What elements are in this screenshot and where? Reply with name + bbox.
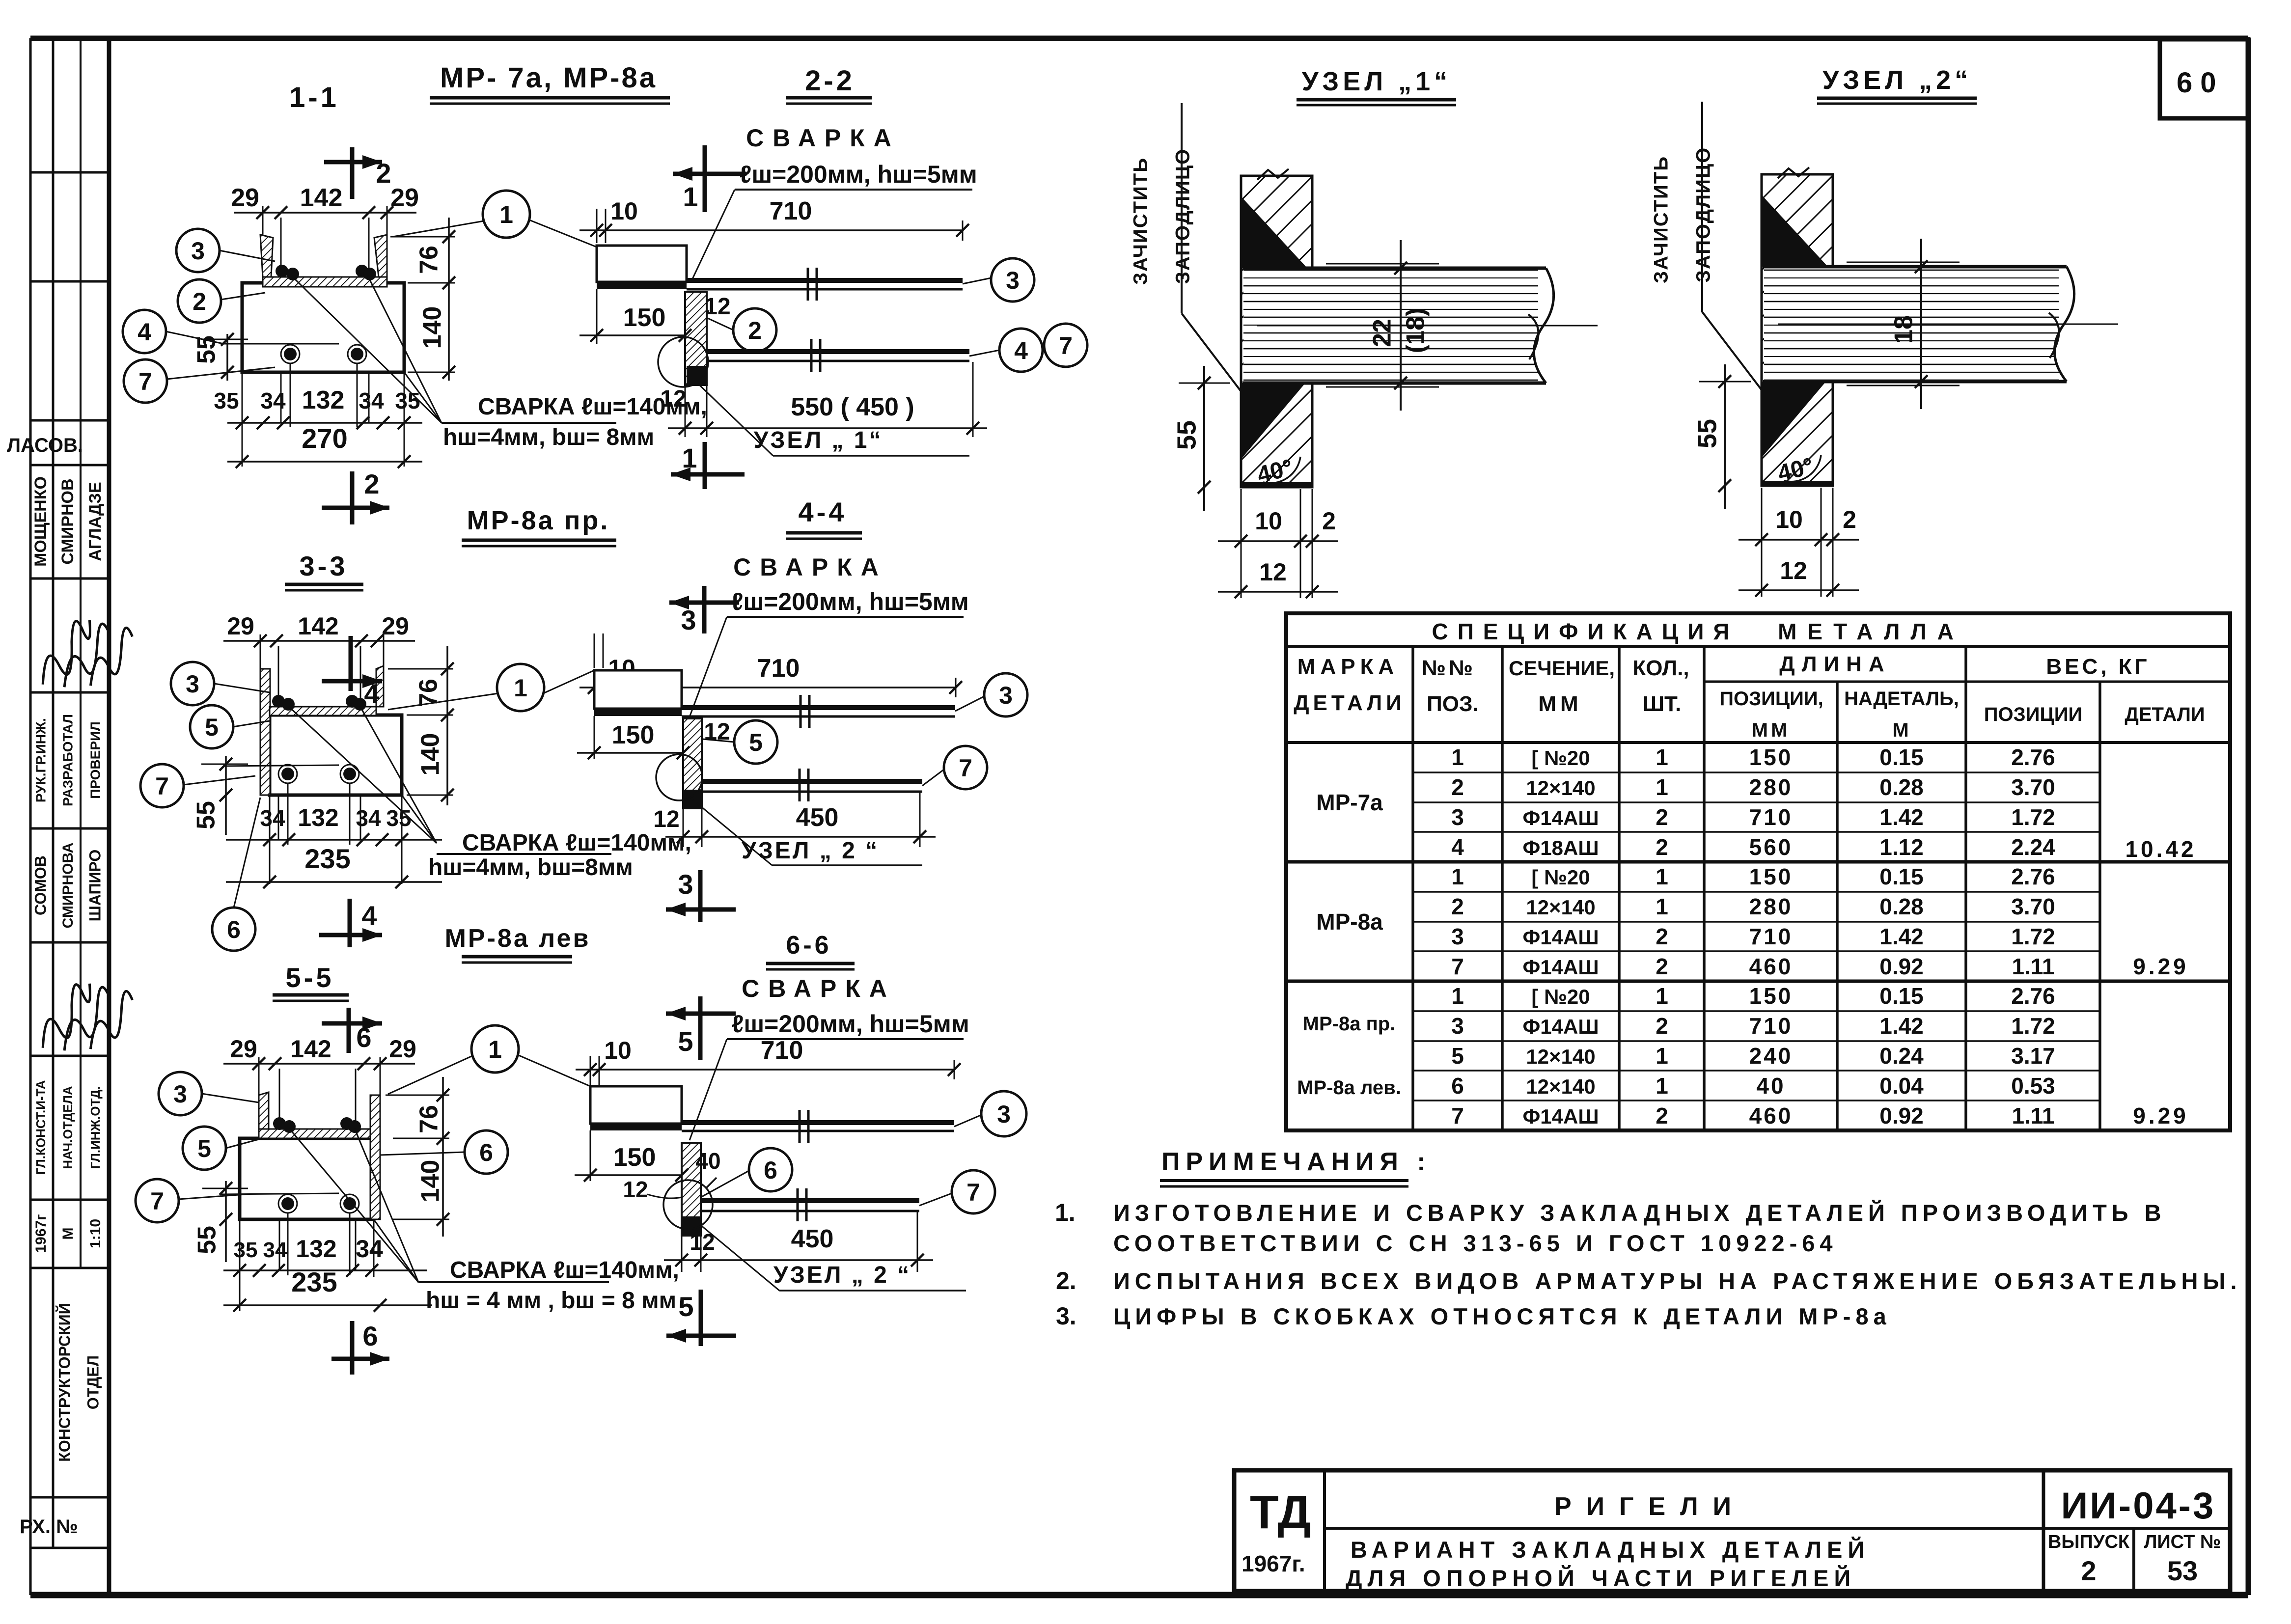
svg-text:hш = 4 мм , bш = 8 мм: hш = 4 мм , bш = 8 мм bbox=[426, 1288, 676, 1314]
svg-text:ПРИМЕЧАНИЯ :: ПРИМЕЧАНИЯ : bbox=[1161, 1148, 1432, 1176]
svg-text:7: 7 bbox=[150, 1187, 164, 1215]
svg-text:710: 710 bbox=[1749, 1013, 1793, 1039]
svg-text:[ №20: [ №20 bbox=[1531, 866, 1590, 889]
svg-text:МР-8а пр.: МР-8а пр. bbox=[1303, 1013, 1396, 1035]
svg-text:710: 710 bbox=[770, 197, 812, 225]
svg-text:0.04: 0.04 bbox=[1879, 1073, 1924, 1099]
svg-text:1: 1 bbox=[1656, 774, 1668, 800]
svg-text:ВАРИАНТ ЗАКЛАДНЫХ ДЕТАЛЕЙ: ВАРИАНТ ЗАКЛАДНЫХ ДЕТАЛЕЙ bbox=[1351, 1537, 1870, 1563]
svg-text:ℓш=200мм, hш=5мм: ℓш=200мм, hш=5мм bbox=[732, 1010, 969, 1038]
svg-text:710: 710 bbox=[1749, 804, 1793, 830]
svg-text:34: 34 bbox=[356, 1235, 383, 1263]
svg-text:ШАПИРО: ШАПИРО bbox=[86, 850, 104, 922]
svg-text:1: 1 bbox=[488, 1036, 502, 1063]
svg-text:0.15: 0.15 bbox=[1879, 983, 1924, 1009]
svg-text:1: 1 bbox=[1656, 1043, 1668, 1069]
svg-text:[ №20: [ №20 bbox=[1531, 985, 1590, 1008]
svg-text:76: 76 bbox=[415, 246, 443, 274]
svg-text:КОЛ.,: КОЛ., bbox=[1632, 656, 1689, 680]
svg-text:2: 2 bbox=[1656, 804, 1668, 830]
svg-text:12: 12 bbox=[1259, 558, 1287, 586]
svg-text:СОМОВ: СОМОВ bbox=[31, 855, 49, 915]
svg-text:2: 2 bbox=[193, 288, 206, 315]
svg-text:НАЧ.ОТДЕЛА: НАЧ.ОТДЕЛА bbox=[60, 1086, 75, 1169]
svg-text:460: 460 bbox=[1749, 954, 1793, 979]
svg-text:СМИРНОВ: СМИРНОВ bbox=[58, 478, 77, 564]
svg-text:7: 7 bbox=[966, 1179, 980, 1206]
svg-text:3: 3 bbox=[681, 605, 696, 635]
svg-text:2: 2 bbox=[1656, 1103, 1668, 1129]
svg-text:5: 5 bbox=[1451, 1043, 1464, 1069]
svg-text:18: 18 bbox=[1890, 315, 1918, 344]
svg-text:№№: №№ bbox=[1422, 656, 1476, 680]
svg-text:9.29: 9.29 bbox=[2133, 954, 2189, 979]
svg-text:0.15: 0.15 bbox=[1879, 744, 1924, 770]
svg-text:МОЩЕНКО: МОЩЕНКО bbox=[31, 476, 50, 567]
svg-text:710: 710 bbox=[757, 654, 800, 683]
svg-text:34: 34 bbox=[260, 388, 286, 413]
svg-text:4: 4 bbox=[138, 318, 151, 346]
svg-text:150: 150 bbox=[1749, 864, 1793, 889]
svg-text:5: 5 bbox=[197, 1135, 211, 1162]
svg-text:АГЛАДЗЕ: АГЛАДЗЕ bbox=[86, 482, 105, 561]
svg-text:240: 240 bbox=[1749, 1043, 1793, 1069]
svg-text:1:10: 1:10 bbox=[87, 1219, 104, 1248]
svg-text:7: 7 bbox=[959, 754, 972, 782]
svg-text:140: 140 bbox=[416, 733, 445, 776]
svg-text:0.24: 0.24 bbox=[1879, 1043, 1924, 1069]
svg-text:12×140: 12×140 bbox=[1526, 1045, 1595, 1068]
svg-text:1.: 1. bbox=[1055, 1199, 1076, 1226]
svg-text:КОНСТРУКТОРСКИЙ: КОНСТРУКТОРСКИЙ bbox=[55, 1303, 73, 1461]
svg-text:10.42: 10.42 bbox=[2125, 836, 2196, 862]
svg-text:СВАРКА ℓш=140мм,: СВАРКА ℓш=140мм, bbox=[462, 830, 691, 856]
svg-text:12: 12 bbox=[623, 1177, 648, 1202]
svg-text:МР-8а лев: МР-8а лев bbox=[445, 924, 591, 953]
svg-text:34: 34 bbox=[359, 388, 384, 413]
svg-text:Ф18АШ: Ф18АШ bbox=[1522, 836, 1599, 859]
svg-text:6: 6 bbox=[1451, 1073, 1464, 1099]
svg-text:150: 150 bbox=[623, 303, 666, 332]
svg-text:Ф14АШ: Ф14АШ bbox=[1522, 1105, 1599, 1128]
svg-text:ДЕТАЛИ: ДЕТАЛИ bbox=[1294, 691, 1406, 715]
svg-text:29: 29 bbox=[231, 184, 259, 212]
svg-text:235: 235 bbox=[304, 843, 350, 874]
svg-text:СВАРКА: СВАРКА bbox=[746, 124, 900, 152]
svg-text:35: 35 bbox=[214, 388, 239, 413]
svg-text:710: 710 bbox=[761, 1036, 803, 1065]
svg-text:РИГЕЛИ: РИГЕЛИ bbox=[1554, 1492, 1746, 1521]
svg-text:12×140: 12×140 bbox=[1526, 896, 1595, 919]
svg-text:0.28: 0.28 bbox=[1879, 774, 1924, 800]
svg-text:29: 29 bbox=[230, 1035, 257, 1063]
svg-text:1967г: 1967г bbox=[33, 1214, 49, 1253]
svg-text:142: 142 bbox=[290, 1035, 331, 1063]
svg-text:ВЕС, КГ: ВЕС, КГ bbox=[2046, 655, 2150, 679]
svg-text:РАЗРАБОТАЛ: РАЗРАБОТАЛ bbox=[60, 714, 75, 806]
svg-text:Ф14АШ: Ф14АШ bbox=[1522, 926, 1599, 949]
svg-text:2: 2 bbox=[1656, 954, 1668, 979]
svg-text:12×140: 12×140 bbox=[1526, 1075, 1595, 1098]
svg-text:550 ( 450 ): 550 ( 450 ) bbox=[791, 393, 914, 421]
svg-text:Ф14АШ: Ф14АШ bbox=[1522, 956, 1599, 979]
svg-text:1: 1 bbox=[682, 442, 697, 473]
svg-text:ТД: ТД bbox=[1250, 1486, 1311, 1539]
svg-text:55: 55 bbox=[193, 1226, 221, 1254]
svg-text:ПОЗИЦИИ: ПОЗИЦИИ bbox=[1984, 704, 2082, 725]
svg-text:1: 1 bbox=[683, 181, 698, 212]
svg-text:1.42: 1.42 bbox=[1879, 804, 1924, 830]
svg-text:ЗАЧИСТИТЬ: ЗАЧИСТИТЬ bbox=[1651, 156, 1672, 283]
svg-text:1: 1 bbox=[499, 201, 513, 228]
svg-text:ℓш=200мм, hш=5мм: ℓш=200мм, hш=5мм bbox=[731, 588, 969, 615]
svg-text:СВАРКА: СВАРКА bbox=[742, 975, 896, 1002]
svg-text:СВАРКА ℓш=140мм,: СВАРКА ℓш=140мм, bbox=[450, 1257, 679, 1283]
svg-text:3-3: 3-3 bbox=[300, 551, 348, 581]
svg-text:1: 1 bbox=[1451, 983, 1464, 1009]
svg-text:53: 53 bbox=[2167, 1555, 2198, 1586]
svg-text:29: 29 bbox=[227, 612, 254, 640]
svg-text:3: 3 bbox=[997, 1101, 1011, 1128]
svg-text:34: 34 bbox=[263, 1238, 287, 1262]
svg-text:1: 1 bbox=[1451, 744, 1464, 770]
svg-text:ММ: ММ bbox=[1538, 692, 1582, 716]
svg-text:2: 2 bbox=[1322, 507, 1336, 535]
svg-text:55: 55 bbox=[192, 801, 221, 829]
svg-text:3.17: 3.17 bbox=[2011, 1043, 2055, 1069]
svg-text:ПОЗИЦИИ,: ПОЗИЦИИ, bbox=[1719, 688, 1823, 710]
svg-text:1.72: 1.72 bbox=[2011, 1013, 2055, 1039]
svg-text:5: 5 bbox=[678, 1291, 693, 1322]
svg-text:12: 12 bbox=[704, 294, 730, 320]
svg-text:1.42: 1.42 bbox=[1879, 1013, 1924, 1039]
svg-text:2: 2 bbox=[1843, 506, 1856, 533]
svg-text:ЗАЧИСТИТЬ: ЗАЧИСТИТЬ bbox=[1130, 157, 1152, 285]
svg-text:0.28: 0.28 bbox=[1879, 894, 1924, 919]
svg-text:[ №20: [ №20 bbox=[1531, 746, 1590, 770]
svg-text:29: 29 bbox=[390, 184, 419, 212]
svg-text:1: 1 bbox=[1656, 1073, 1668, 1099]
svg-text:ГЛ.ИНЖ.ОТД.: ГЛ.ИНЖ.ОТД. bbox=[88, 1086, 103, 1169]
svg-text:280: 280 bbox=[1749, 774, 1793, 800]
svg-text:1.42: 1.42 bbox=[1879, 924, 1924, 949]
svg-text:1.11: 1.11 bbox=[2012, 954, 2055, 979]
svg-text:460: 460 bbox=[1749, 1103, 1793, 1129]
svg-text:3: 3 bbox=[1451, 804, 1464, 830]
svg-text:3: 3 bbox=[186, 670, 199, 698]
svg-text:3.70: 3.70 bbox=[2011, 774, 2055, 800]
svg-text:ОТДЕЛ: ОТДЕЛ bbox=[84, 1355, 102, 1409]
svg-text:7: 7 bbox=[138, 368, 152, 395]
svg-text:МР-8а лев.: МР-8а лев. bbox=[1297, 1077, 1401, 1099]
svg-text:2: 2 bbox=[376, 158, 391, 189]
svg-text:1: 1 bbox=[1656, 864, 1668, 889]
svg-text:5: 5 bbox=[749, 729, 763, 756]
svg-text:2: 2 bbox=[364, 468, 379, 499]
svg-text:7: 7 bbox=[1451, 954, 1464, 979]
svg-text:2: 2 bbox=[1656, 834, 1668, 860]
svg-text:5-5: 5-5 bbox=[286, 962, 334, 993]
svg-text:3: 3 bbox=[173, 1080, 187, 1108]
svg-text:1.72: 1.72 bbox=[2011, 924, 2055, 949]
svg-text:СООТВЕТСТВИИ С СН 313-65 И: СООТВЕТСТВИИ С СН 313-65 И ГОСТ 10922-64 bbox=[1113, 1230, 1838, 1256]
svg-text:7: 7 bbox=[1451, 1103, 1464, 1129]
svg-text:4: 4 bbox=[1014, 337, 1028, 364]
svg-text:1: 1 bbox=[1656, 744, 1668, 770]
svg-text:СПЕЦИФИКАЦИЯ: СПЕЦИФИКАЦИЯ bbox=[1432, 619, 1739, 644]
svg-text:150: 150 bbox=[1749, 983, 1793, 1009]
svg-text:ЛАСОВ.: ЛАСОВ. bbox=[7, 435, 83, 456]
svg-text:12: 12 bbox=[653, 806, 679, 832]
svg-text:35: 35 bbox=[386, 805, 411, 831]
svg-text:ВЫПУСК: ВЫПУСК bbox=[2048, 1532, 2130, 1552]
svg-text:ШТ.: ШТ. bbox=[1643, 692, 1681, 716]
svg-text:2: 2 bbox=[2081, 1555, 2096, 1586]
svg-text:2-2: 2-2 bbox=[805, 65, 855, 97]
svg-text:9.29: 9.29 bbox=[2133, 1103, 2189, 1129]
svg-text:МР-7а: МР-7а bbox=[1316, 790, 1383, 815]
svg-text:40: 40 bbox=[695, 1148, 720, 1174]
svg-text:6-6: 6-6 bbox=[786, 931, 831, 960]
svg-text:3: 3 bbox=[1451, 924, 1464, 949]
svg-text:5: 5 bbox=[678, 1026, 693, 1057]
svg-text:1-1: 1-1 bbox=[289, 82, 339, 113]
svg-text:132: 132 bbox=[298, 804, 338, 831]
svg-text:6: 6 bbox=[356, 1022, 371, 1053]
svg-text:29: 29 bbox=[382, 612, 409, 640]
svg-text:ЗАПОДЛИЦО: ЗАПОДЛИЦО bbox=[1172, 148, 1194, 284]
svg-text:ЦИФРЫ В СКОБКАХ ОТНОСЯТСЯ К Д: ЦИФРЫ В СКОБКАХ ОТНОСЯТСЯ К ДЕТАЛИ МР-8а bbox=[1113, 1303, 1891, 1329]
svg-text:ИСПЫТАНИЯ ВСЕХ ВИДОВ АРМАТУР: ИСПЫТАНИЯ ВСЕХ ВИДОВ АРМАТУРЫ НА РАСТЯЖЕ… bbox=[1113, 1268, 2242, 1294]
svg-text:34: 34 bbox=[356, 805, 381, 831]
svg-text:3.: 3. bbox=[1056, 1302, 1076, 1330]
svg-text:6: 6 bbox=[479, 1139, 493, 1166]
svg-text:1.12: 1.12 bbox=[1879, 834, 1924, 860]
svg-text:ДЛИНА: ДЛИНА bbox=[1779, 652, 1891, 676]
svg-text:2: 2 bbox=[1451, 894, 1464, 919]
svg-text:1: 1 bbox=[514, 674, 527, 702]
svg-text:12: 12 bbox=[660, 386, 686, 412]
svg-text:ЗАПОДЛИЦО: ЗАПОДЛИЦО bbox=[1693, 147, 1714, 282]
svg-text:Ф14АШ: Ф14АШ bbox=[1522, 1015, 1599, 1038]
svg-text:710: 710 bbox=[1749, 924, 1793, 949]
svg-text:2.: 2. bbox=[1056, 1267, 1076, 1294]
svg-text:МР-8а: МР-8а bbox=[1316, 909, 1383, 935]
svg-text:10: 10 bbox=[1775, 506, 1803, 533]
svg-text:132: 132 bbox=[296, 1235, 336, 1263]
svg-text:НАДЕТАЛЬ,: НАДЕТАЛЬ, bbox=[1844, 688, 1959, 710]
svg-text:10: 10 bbox=[1255, 507, 1282, 535]
svg-text:УЗЕЛ „2“: УЗЕЛ „2“ bbox=[1822, 65, 1972, 95]
svg-text:3.70: 3.70 bbox=[2011, 894, 2055, 919]
svg-text:150: 150 bbox=[613, 1143, 656, 1172]
svg-text:ИИ-04-3: ИИ-04-3 bbox=[2061, 1485, 2216, 1527]
svg-text:hш=4мм, bш=8мм: hш=4мм, bш=8мм bbox=[428, 854, 633, 881]
svg-text:10: 10 bbox=[604, 1037, 632, 1064]
svg-text:УЗЕЛ „ 2 “: УЗЕЛ „ 2 “ bbox=[742, 838, 879, 864]
svg-text:4: 4 bbox=[361, 900, 377, 931]
svg-text:2: 2 bbox=[1656, 1013, 1668, 1039]
svg-text:2.24: 2.24 bbox=[2011, 834, 2055, 860]
svg-text:60: 60 bbox=[2177, 67, 2224, 99]
svg-text:12×140: 12×140 bbox=[1526, 776, 1595, 799]
svg-text:СВАРКА: СВАРКА bbox=[733, 553, 887, 581]
svg-text:СМИРНОВА: СМИРНОВА bbox=[60, 843, 76, 929]
svg-text:34: 34 bbox=[260, 805, 285, 831]
svg-text:Ф14АШ: Ф14АШ bbox=[1522, 806, 1599, 829]
svg-text:М: М bbox=[1892, 719, 1908, 741]
svg-text:3: 3 bbox=[1006, 267, 1020, 294]
svg-text:140: 140 bbox=[416, 1160, 445, 1203]
svg-text:55: 55 bbox=[1172, 420, 1201, 450]
svg-text:150: 150 bbox=[612, 721, 655, 749]
svg-text:4: 4 bbox=[1451, 834, 1464, 860]
svg-text:450: 450 bbox=[791, 1225, 834, 1253]
svg-text:МЕТАЛЛА: МЕТАЛЛА bbox=[1778, 619, 1964, 644]
svg-text:55: 55 bbox=[1692, 419, 1722, 448]
svg-text:МР-8а пр.: МР-8а пр. bbox=[467, 506, 610, 535]
svg-text:hш=4мм, bш= 8мм: hш=4мм, bш= 8мм bbox=[443, 424, 654, 450]
svg-text:ММ: ММ bbox=[1752, 719, 1791, 741]
svg-text:М: М bbox=[60, 1228, 76, 1240]
svg-text:76: 76 bbox=[415, 1105, 443, 1133]
svg-text:УЗЕЛ „ 2 “: УЗЕЛ „ 2 “ bbox=[773, 1262, 911, 1288]
svg-text:ДЕТАЛИ: ДЕТАЛИ bbox=[2125, 704, 2205, 725]
svg-text:560: 560 bbox=[1749, 834, 1793, 860]
svg-text:1: 1 bbox=[1656, 894, 1668, 919]
svg-text:1.72: 1.72 bbox=[2011, 804, 2055, 830]
svg-text:142: 142 bbox=[300, 184, 343, 212]
svg-text:450: 450 bbox=[796, 803, 839, 832]
svg-text:22: 22 bbox=[1368, 319, 1397, 347]
svg-text:235: 235 bbox=[291, 1266, 337, 1297]
svg-text:3: 3 bbox=[191, 237, 205, 265]
svg-text:10: 10 bbox=[610, 197, 638, 225]
svg-text:МАРКА: МАРКА bbox=[1297, 655, 1399, 679]
svg-text:ПРОВЕРИЛ: ПРОВЕРИЛ bbox=[87, 721, 103, 799]
svg-text:4-4: 4-4 bbox=[799, 496, 847, 527]
svg-text:6: 6 bbox=[764, 1156, 777, 1184]
svg-text:132: 132 bbox=[302, 386, 345, 414]
svg-text:7: 7 bbox=[155, 772, 169, 800]
svg-text:35: 35 bbox=[395, 388, 420, 413]
svg-text:12: 12 bbox=[1780, 557, 1807, 584]
svg-text:270: 270 bbox=[302, 423, 347, 454]
svg-text:2: 2 bbox=[1656, 924, 1668, 949]
svg-text:ЛИСТ №: ЛИСТ № bbox=[2144, 1532, 2221, 1552]
svg-text:150: 150 bbox=[1749, 744, 1793, 770]
svg-text:3: 3 bbox=[678, 869, 693, 900]
svg-text:0.92: 0.92 bbox=[1879, 954, 1924, 979]
svg-text:35: 35 bbox=[234, 1238, 258, 1262]
svg-text:1: 1 bbox=[1656, 983, 1668, 1009]
svg-text:МР- 7а, МР-8а: МР- 7а, МР-8а bbox=[440, 62, 657, 94]
svg-text:0.15: 0.15 bbox=[1879, 864, 1924, 889]
svg-text:5: 5 bbox=[205, 714, 219, 741]
svg-text:СЕЧЕНИЕ,: СЕЧЕНИЕ, bbox=[1509, 657, 1615, 680]
svg-text:ДЛЯ ОПОРНОЙ ЧАСТИ РИГЕЛЕЙ: ДЛЯ ОПОРНОЙ ЧАСТИ РИГЕЛЕЙ bbox=[1346, 1565, 1856, 1591]
svg-text:6: 6 bbox=[227, 916, 241, 943]
svg-text:(18): (18) bbox=[1402, 308, 1430, 353]
svg-text:4: 4 bbox=[364, 678, 379, 709]
svg-text:РУК.ГР.ИНЖ.: РУК.ГР.ИНЖ. bbox=[33, 718, 48, 802]
svg-text:0.92: 0.92 bbox=[1879, 1103, 1924, 1129]
svg-text:1.11: 1.11 bbox=[2012, 1103, 2055, 1129]
svg-text:142: 142 bbox=[298, 612, 338, 640]
svg-text:2.76: 2.76 bbox=[2011, 983, 2055, 1009]
svg-text:29: 29 bbox=[389, 1035, 416, 1063]
svg-text:ПОЗ.: ПОЗ. bbox=[1427, 692, 1479, 716]
svg-text:2: 2 bbox=[748, 317, 762, 344]
svg-text:1: 1 bbox=[1451, 864, 1464, 889]
svg-text:3: 3 bbox=[1451, 1013, 1464, 1039]
svg-text:ℓш=200мм, hш=5мм: ℓш=200мм, hш=5мм bbox=[740, 161, 977, 188]
svg-text:3: 3 bbox=[999, 682, 1013, 709]
svg-text:0.53: 0.53 bbox=[2011, 1073, 2055, 1099]
svg-text:140: 140 bbox=[418, 306, 447, 349]
svg-text:РХ. №: РХ. № bbox=[20, 1516, 78, 1538]
svg-text:40: 40 bbox=[1756, 1073, 1785, 1099]
svg-text:7: 7 bbox=[1059, 332, 1073, 359]
svg-text:2.76: 2.76 bbox=[2011, 744, 2055, 770]
svg-text:ГЛ.КОНСТ.И-ТА: ГЛ.КОНСТ.И-ТА bbox=[33, 1080, 48, 1175]
svg-text:УЗЕЛ „ 1“: УЗЕЛ „ 1“ bbox=[754, 427, 883, 453]
svg-text:6: 6 bbox=[362, 1321, 378, 1351]
svg-text:2.76: 2.76 bbox=[2011, 864, 2055, 889]
svg-text:2: 2 bbox=[1451, 774, 1464, 800]
svg-text:280: 280 bbox=[1749, 894, 1793, 919]
svg-text:ИЗГОТОВЛЕНИЕ И СВАРКУ ЗАКЛАДН: ИЗГОТОВЛЕНИЕ И СВАРКУ ЗАКЛАДНЫХ ДЕТАЛЕЙ … bbox=[1113, 1200, 2166, 1226]
svg-text:1967г.: 1967г. bbox=[1242, 1551, 1305, 1576]
svg-text:УЗЕЛ „1“: УЗЕЛ „1“ bbox=[1302, 67, 1451, 96]
